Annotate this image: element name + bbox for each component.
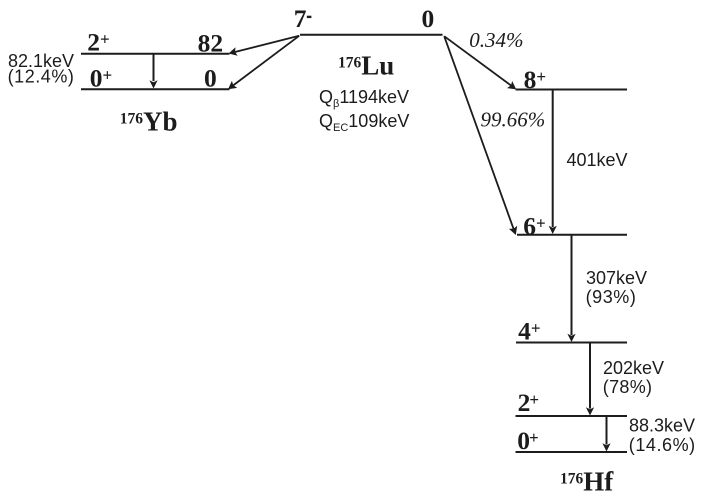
level line 176Hf 6+ bbox=[517, 234, 627, 236]
svg-text:88.3keV: 88.3keV bbox=[629, 416, 695, 436]
svg-text:QEC109keV: QEC109keV bbox=[319, 111, 409, 134]
superscript minus of 7- bbox=[307, 16, 312, 18]
svg-text:0: 0 bbox=[204, 64, 217, 93]
svg-text:307keV: 307keV bbox=[586, 268, 647, 288]
svg-text:(93%): (93%) bbox=[586, 287, 637, 307]
svg-text:202keV: 202keV bbox=[603, 358, 664, 378]
svg-text:7: 7 bbox=[294, 4, 307, 33]
level line 176Yb 0+ ground state bbox=[81, 88, 230, 90]
svg-text:401keV: 401keV bbox=[567, 150, 628, 170]
level line 176Lu ground state 7- bbox=[300, 34, 443, 36]
level line 176Yb 2+ (82 keV) bbox=[81, 53, 230, 55]
svg-text:(14.6%): (14.6%) bbox=[629, 435, 696, 455]
svg-text:0.34%: 0.34% bbox=[469, 28, 523, 52]
level line 176Hf 2+ bbox=[516, 415, 628, 417]
svg-text:Qβ1194keV: Qβ1194keV bbox=[319, 87, 409, 110]
svg-text:(12.4%): (12.4%) bbox=[8, 67, 75, 87]
gamma arrow 202keV in 176Hf from 4+ to 2+ bbox=[586, 343, 594, 416]
gamma arrow 307keV in 176Hf from 6+ to 4+ bbox=[567, 235, 575, 342]
gamma arrow 401keV in 176Hf from 8+ to 6+ bbox=[549, 90, 557, 234]
beta decay arrow 176Lu to 176Hf 6+ (99.66%) bbox=[444, 36, 517, 235]
level line 176Hf 0+ ground state bbox=[516, 451, 628, 453]
svg-text:(78%): (78%) bbox=[603, 377, 653, 397]
gamma arrow 82.1keV in 176Yb from 2+ to 0+ bbox=[149, 54, 157, 89]
svg-text:0: 0 bbox=[422, 4, 435, 33]
gamma arrow 88.3keV in 176Hf from 2+ to 0+ bbox=[602, 417, 610, 452]
svg-text:82: 82 bbox=[198, 29, 224, 58]
svg-text:99.66%: 99.66% bbox=[481, 108, 546, 132]
beta decay arrow 176Lu to 176Yb 0+ bbox=[228, 36, 299, 90]
beta decay arrow 176Lu to 176Yb 2+ bbox=[229, 36, 300, 56]
level line 176Hf 8+ bbox=[516, 89, 628, 91]
level line 176Hf 4+ bbox=[516, 342, 627, 344]
beta decay arrow 176Lu to 176Hf 8+ (0.34%) bbox=[444, 36, 516, 89]
